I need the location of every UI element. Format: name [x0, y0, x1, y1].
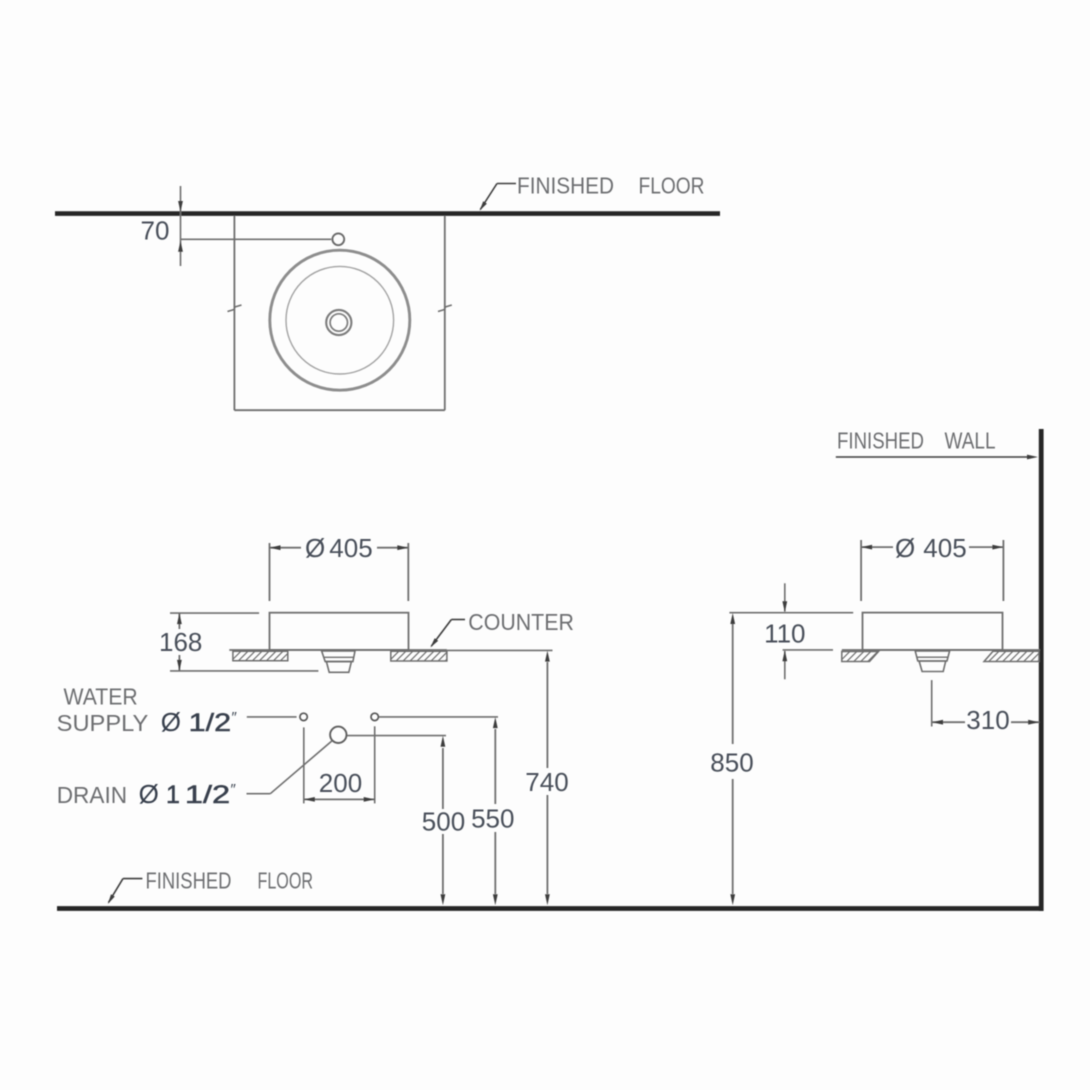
- plan view: basin inner circle: [286, 266, 394, 374]
- dimension 740: arrows: [545, 651, 550, 662]
- plan view: break mark right edge: [438, 305, 452, 312]
- label finished floor (top): leader: [497, 183, 516, 185]
- plan view: basin rim circle: [270, 250, 410, 390]
- front view: counter top line: [229, 649, 447, 651]
- svg-text:FINISHEDFLOOR: FINISHEDFLOOR: [146, 867, 314, 893]
- svg-text:Ø: Ø: [305, 533, 325, 563]
- dimension 740: dimension line: [546, 662, 548, 768]
- svg-text:110: 110: [764, 619, 805, 649]
- side view: drain drop line: [931, 680, 933, 726]
- dimension 200: extension line left: [303, 727, 305, 803]
- svg-text:200: 200: [319, 768, 362, 798]
- front view: water supply hole left: [300, 713, 307, 720]
- front view: water supply hole right: [371, 713, 378, 720]
- svg-text:550: 550: [471, 804, 514, 834]
- svg-text:DRAINØ11/2″: DRAINØ11/2″: [57, 779, 237, 809]
- front view: drain hole circle: [330, 727, 346, 743]
- svg-text:500: 500: [422, 807, 465, 837]
- plan view: break mark left edge: [228, 305, 242, 312]
- dimension 200: dimension line: [304, 798, 375, 800]
- front view: line drain to 500 dim: [347, 735, 446, 737]
- front view: drain tailpiece: [326, 662, 351, 673]
- front view: dia 405 dimension line: [270, 547, 302, 549]
- svg-text:FINISHEDWALL: FINISHEDWALL: [837, 428, 996, 454]
- plan view: faucet hole circle: [332, 233, 344, 245]
- dimension 168: arrows: [177, 613, 182, 624]
- floor line (thick): [57, 906, 1044, 911]
- dimension 110: lower arrow and tail: [784, 651, 786, 679]
- svg-text:168: 168: [159, 627, 202, 657]
- plan view: drain inner circle: [330, 314, 347, 331]
- label finished floor (bottom): arrowhead: [108, 894, 115, 904]
- svg-text:740: 740: [525, 767, 568, 797]
- dimension 500: arrows: [441, 736, 446, 747]
- front view: drain flange: [322, 651, 355, 662]
- label finished wall: underline leader: [836, 456, 1031, 458]
- dimension 850: arrows: [730, 613, 735, 624]
- dimension 168: dimension line: [178, 613, 180, 629]
- dimension 168: extension lines: [170, 612, 259, 614]
- svg-text:405: 405: [923, 533, 966, 563]
- side view: counter top line: [842, 649, 1040, 651]
- svg-text:850: 850: [710, 748, 753, 778]
- svg-text:WATER: WATER: [64, 684, 138, 710]
- plan view: wall line (thick): [55, 211, 720, 216]
- dimension 500: dimension line: [442, 748, 444, 809]
- svg-text:405: 405: [329, 533, 372, 563]
- front view: dia 405 extension lines: [269, 543, 271, 601]
- svg-text:COUNTER: COUNTER: [468, 609, 574, 635]
- front view: dia 405 arrows: [270, 545, 281, 550]
- svg-text:70: 70: [141, 216, 170, 246]
- side view: drain tailpiece: [919, 661, 946, 672]
- dimension 550: dimension line: [494, 729, 496, 804]
- dimension 70: line to faucet hole: [181, 238, 332, 240]
- front view: basin body: [270, 613, 409, 650]
- label counter: arrowhead: [430, 638, 438, 647]
- dimension 310: arrows: [932, 720, 943, 725]
- label water supply: line to hole: [247, 716, 297, 718]
- plan view: counter outline: [233, 216, 235, 410]
- svg-text:310: 310: [966, 705, 1009, 735]
- dimension 70: arrow down: [178, 201, 183, 212]
- side view: basin body: [863, 613, 1003, 650]
- dimension 310: dimension line: [932, 721, 965, 723]
- plan view: drain outer circle: [326, 310, 351, 335]
- dimension 110: extension line top: [729, 612, 853, 614]
- dimension 550: arrows: [493, 717, 498, 728]
- label finished wall: arrowhead: [1027, 455, 1038, 460]
- dimension 110: extension line bottom: [783, 649, 833, 651]
- wall line (thick): [1039, 429, 1044, 911]
- dimension 200: arrows: [304, 797, 315, 802]
- dimension 850: dimension line: [732, 624, 734, 744]
- label finished floor (bottom): leader: [123, 878, 142, 880]
- svg-text:FINISHEDFLOOR: FINISHEDFLOOR: [517, 173, 705, 199]
- dimension 70: extension line: [180, 186, 182, 266]
- svg-text:Ø: Ø: [895, 533, 915, 563]
- svg-text:SUPPLYØ1/2″: SUPPLYØ1/2″: [57, 707, 238, 737]
- label finished floor (top): arrowhead: [480, 201, 487, 211]
- dimension 110: upper arrow and tail: [784, 583, 786, 611]
- side view: dia 405 arrows: [861, 545, 872, 550]
- side view: dia 405 dimension line: [861, 546, 893, 548]
- side view: dia 405 extension lines: [860, 540, 862, 601]
- label drain: leader: [247, 793, 271, 795]
- label counter: leader: [451, 619, 465, 621]
- dimension 740: extension line: [447, 649, 553, 651]
- dimension 200: extension line right: [374, 726, 376, 803]
- front view: line hole to 550 dim: [379, 716, 498, 718]
- dimension 70: arrow up: [178, 241, 183, 252]
- side view: drain flange: [915, 651, 949, 661]
